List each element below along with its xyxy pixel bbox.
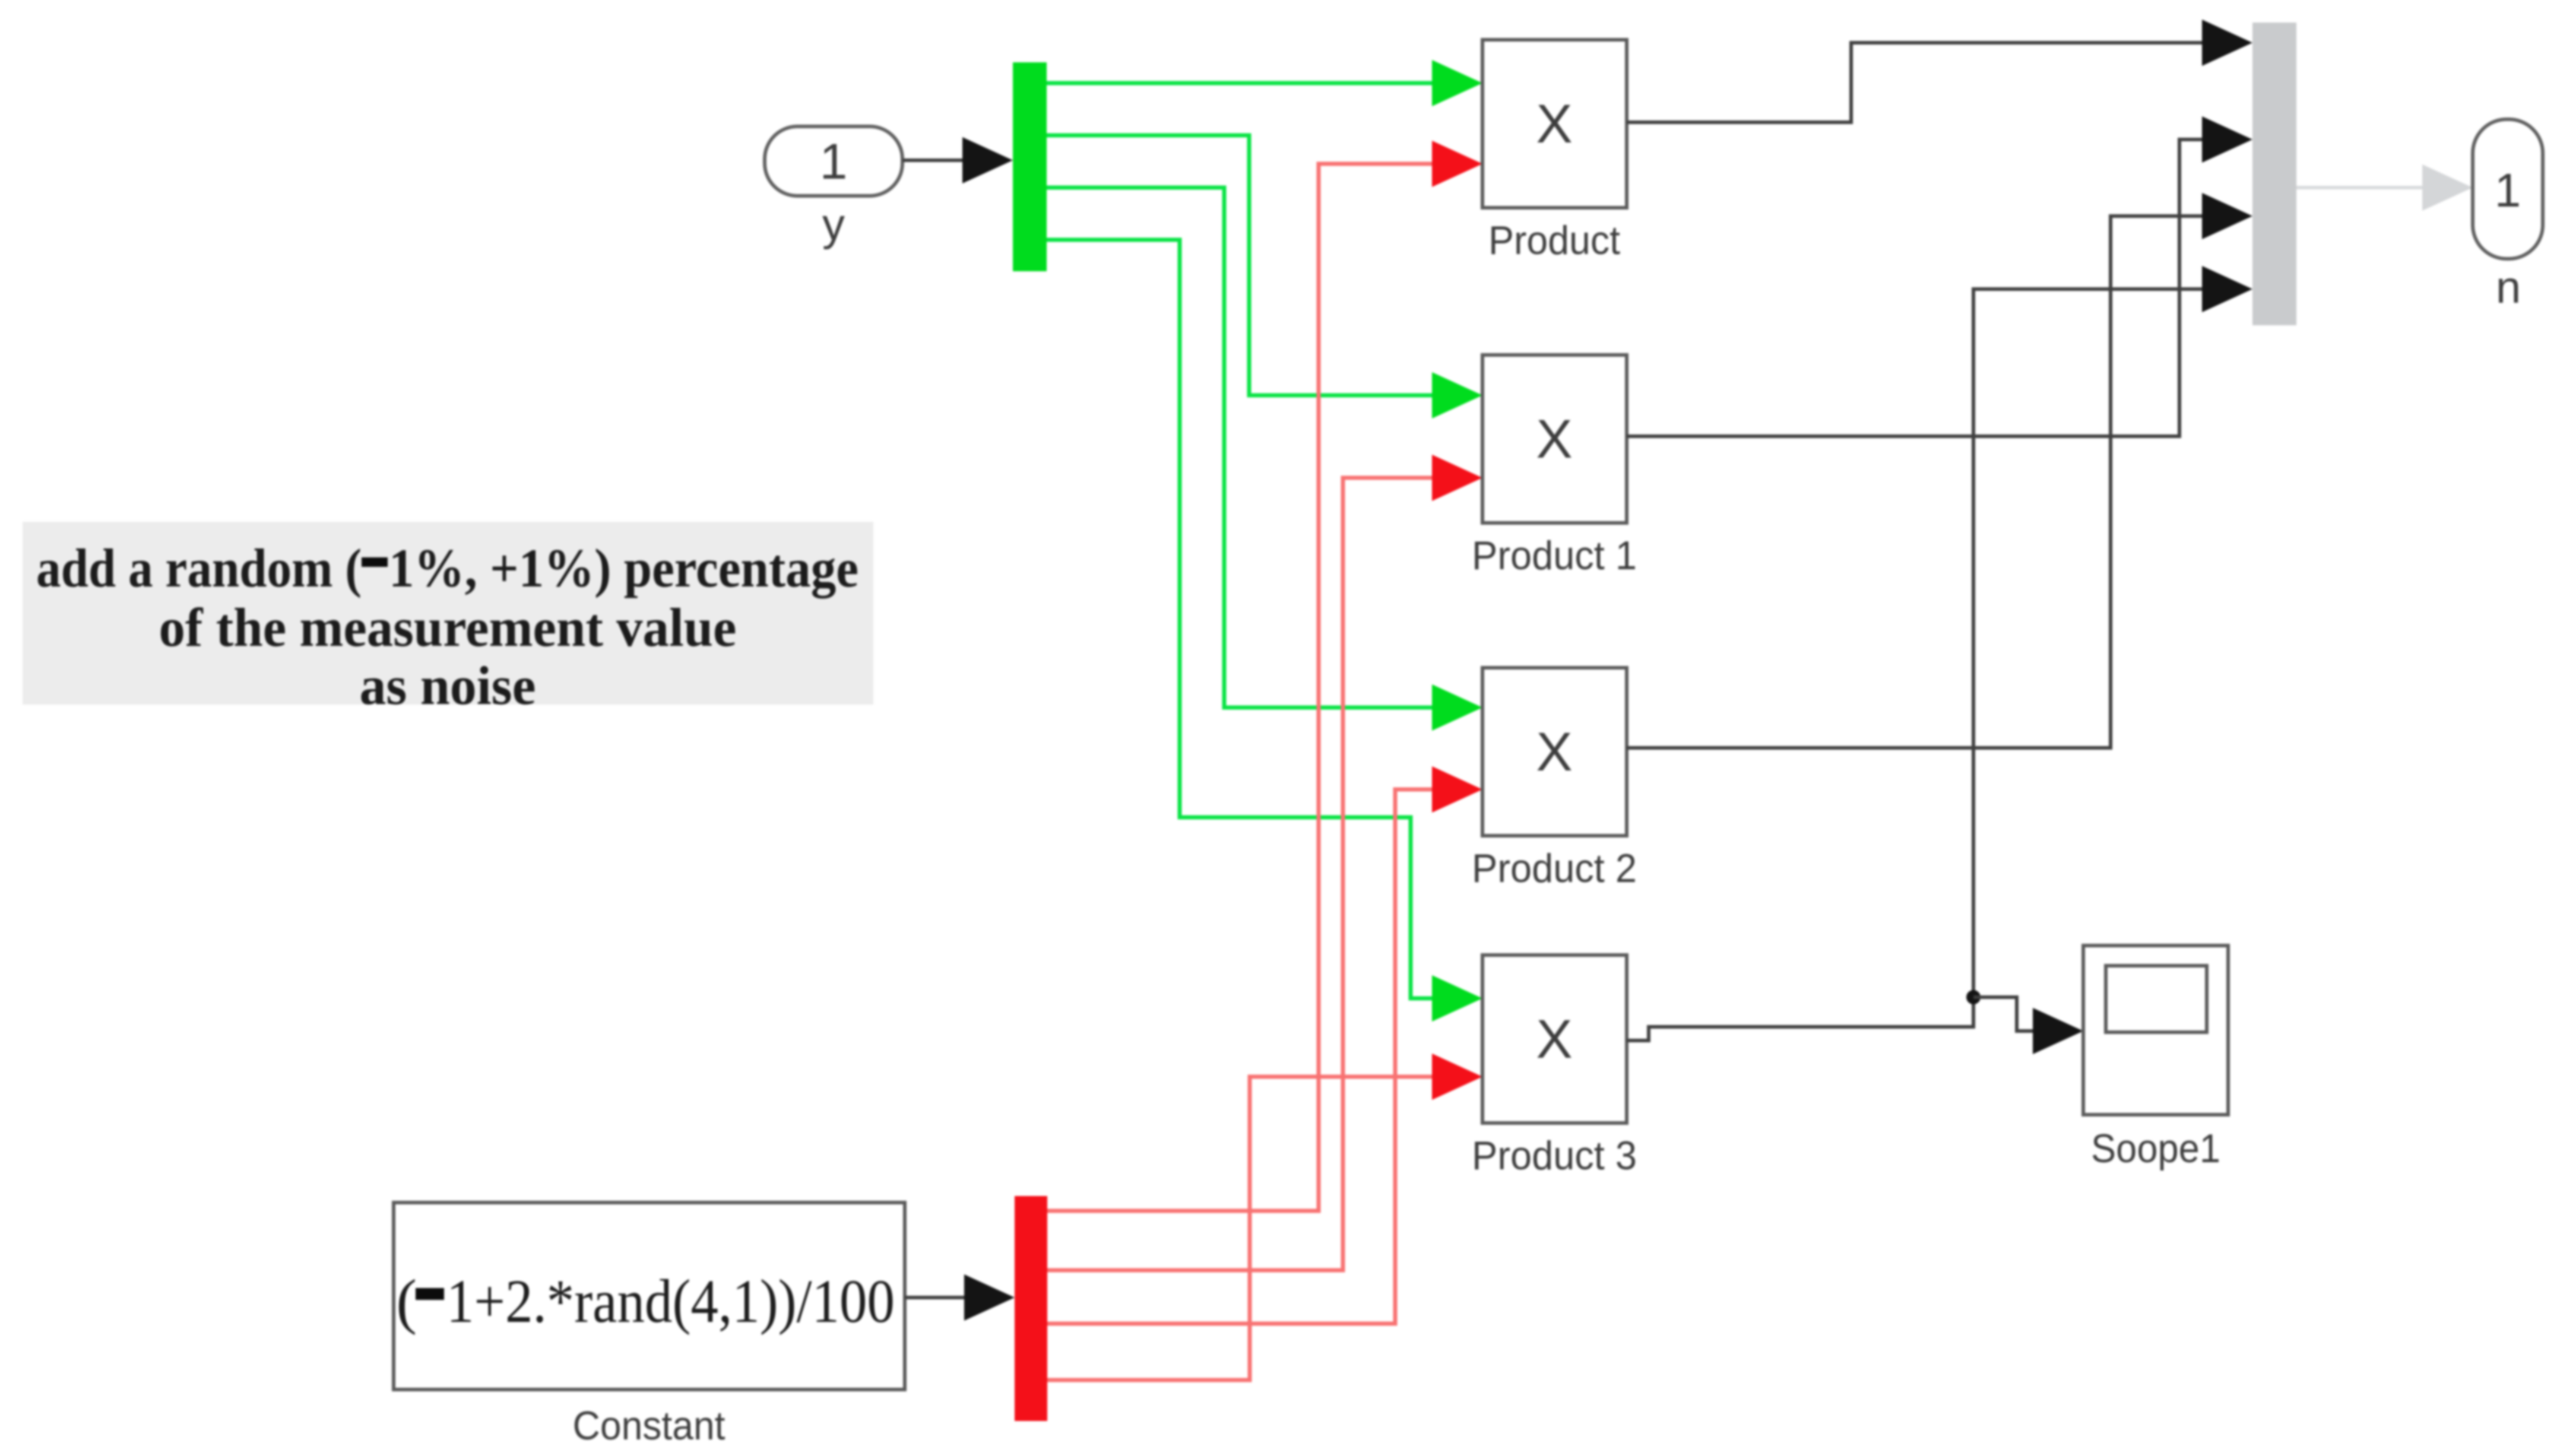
green demux bar (1013, 62, 1047, 271)
green wire 4 (demux out4 to Product3 in1) (1047, 240, 1437, 998)
green arrow into Product2 in1 (1432, 684, 1482, 731)
Product 2 block (1482, 668, 1627, 836)
svg-text:Constant: Constant (573, 1403, 725, 1448)
svg-text:Product 2: Product 2 (1472, 846, 1637, 891)
red wire 3 (red demux out3 to Product2 in2) (1047, 789, 1437, 1324)
svg-text:X: X (1536, 1009, 1572, 1070)
red arrow into Product in2 (1432, 141, 1482, 187)
red arrow into Product3 in2 (1432, 1054, 1482, 1100)
wire Product2 out to mux in3 (1627, 216, 2206, 748)
svg-text:(: ( (396, 1267, 417, 1336)
svg-text:Product 3: Product 3 (1472, 1133, 1637, 1178)
red arrow into Product2 in2 (1432, 766, 1482, 813)
arrow into mux in3 (2202, 193, 2252, 239)
wire Product1 out to mux in2 (1627, 139, 2206, 436)
wire constant to red demux (905, 1296, 969, 1299)
green arrow into Product in1 (1432, 60, 1482, 106)
green wire 3 (demux out3 to Product2 in1) (1047, 188, 1437, 708)
svg-text:add a random (: add a random ( (36, 538, 362, 598)
scope screen (2106, 966, 2207, 1032)
svg-text:as noise: as noise (360, 655, 536, 716)
arrow into mux in4 (2202, 266, 2252, 312)
svg-text:Product: Product (1488, 218, 1620, 263)
Product block (1482, 40, 1627, 208)
Product 1 block (1482, 355, 1627, 523)
svg-text:of the measurement value: of the measurement value (159, 597, 737, 658)
svg-text:Product 1: Product 1 (1472, 533, 1637, 578)
red wire 4 (red demux out4 to Product3 in2) (1047, 1077, 1437, 1380)
inport y block (765, 126, 902, 196)
svg-text:n: n (2496, 262, 2521, 313)
svg-text:X: X (1536, 94, 1572, 154)
svg-text:y: y (822, 199, 845, 250)
outport n block (2473, 119, 2543, 259)
green wire 2 (demux out2 to Product1 in1) (1047, 135, 1437, 395)
green arrow into Product1 in1 (1432, 372, 1482, 418)
wire mux out to outport n (2296, 186, 2431, 189)
annotation note background (23, 522, 873, 705)
red wire 2 (red demux out2 to Product1 in2) (1047, 478, 1437, 1270)
red wire 1 (red demux out1 to Product in2) (1047, 164, 1437, 1211)
wire junction to scope (1973, 997, 2041, 1031)
arrow into scope (2033, 1008, 2083, 1054)
svg-text:X: X (1536, 722, 1572, 782)
mux bar (2252, 23, 2296, 325)
arrow into mux in2 (2202, 116, 2252, 163)
arrow into mux in1 (2202, 20, 2252, 66)
svg-text:1: 1 (820, 134, 848, 189)
red arrow into Product1 in2 (1432, 455, 1482, 501)
wire Product out to mux in1 (1627, 43, 2206, 122)
wire Product3 out to mux in4 (1627, 289, 2206, 1041)
wire inport to green demux (902, 158, 968, 162)
Product 3 block (1482, 955, 1627, 1123)
Scope1 block (2083, 946, 2228, 1115)
green arrow into Product3 in1 (1432, 975, 1482, 1022)
Constant block (394, 1203, 905, 1390)
green wire 1 (demux out1 to Product in1) (1047, 81, 1437, 85)
arrow into red demux (964, 1274, 1015, 1321)
svg-text:1: 1 (2495, 164, 2521, 217)
svg-text:1+2.*rand(4,1))/100: 1+2.*rand(4,1))/100 (446, 1267, 895, 1336)
junction dot on Product3 wire (1966, 990, 1981, 1004)
arrow into green demux (962, 137, 1013, 183)
light arrow into outport n (2422, 164, 2473, 211)
svg-text:Soope1: Soope1 (2091, 1126, 2220, 1171)
svg-text:X: X (1536, 409, 1572, 470)
red demux bar (1015, 1196, 1047, 1421)
svg-text:1%, +1%) percentage: 1%, +1%) percentage (389, 538, 858, 598)
